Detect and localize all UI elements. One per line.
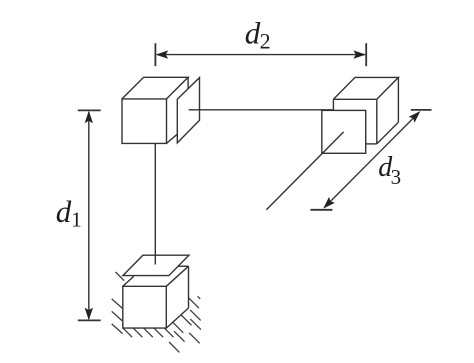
svg-text:1: 1 [71, 208, 82, 232]
svg-text:3: 3 [391, 165, 402, 189]
svg-text:d: d [56, 194, 72, 229]
svg-text:d: d [245, 16, 261, 51]
svg-text:2: 2 [260, 28, 271, 53]
